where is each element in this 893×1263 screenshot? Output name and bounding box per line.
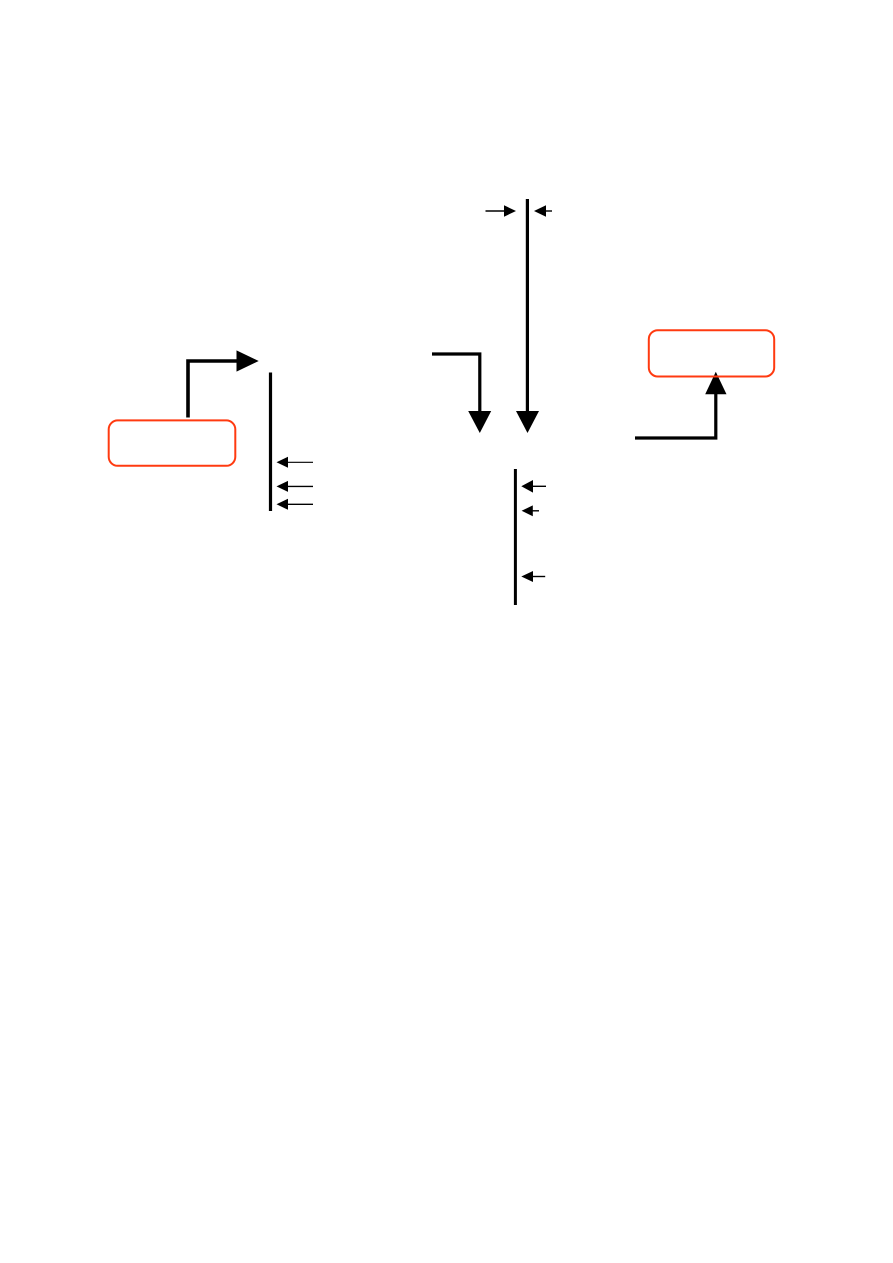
middle small arrow 3	[521, 571, 545, 582]
left elbow arrow	[188, 350, 259, 417]
left box	[109, 420, 236, 465]
middle vertical line	[514, 469, 517, 605]
middle elbow arrow	[432, 354, 491, 433]
middle small arrow 2	[522, 505, 539, 516]
left small arrow 1	[277, 457, 314, 468]
left vertical line	[269, 373, 272, 512]
left small arrow 3	[277, 499, 314, 510]
long vertical arrow	[516, 199, 539, 433]
middle small arrow 1	[521, 480, 546, 493]
right elbow arrow	[635, 372, 727, 438]
dimension arrow left (points right)	[486, 205, 517, 216]
dimension arrow right (points left)	[534, 205, 552, 216]
right box	[649, 330, 774, 376]
left small arrow 2	[277, 481, 314, 492]
